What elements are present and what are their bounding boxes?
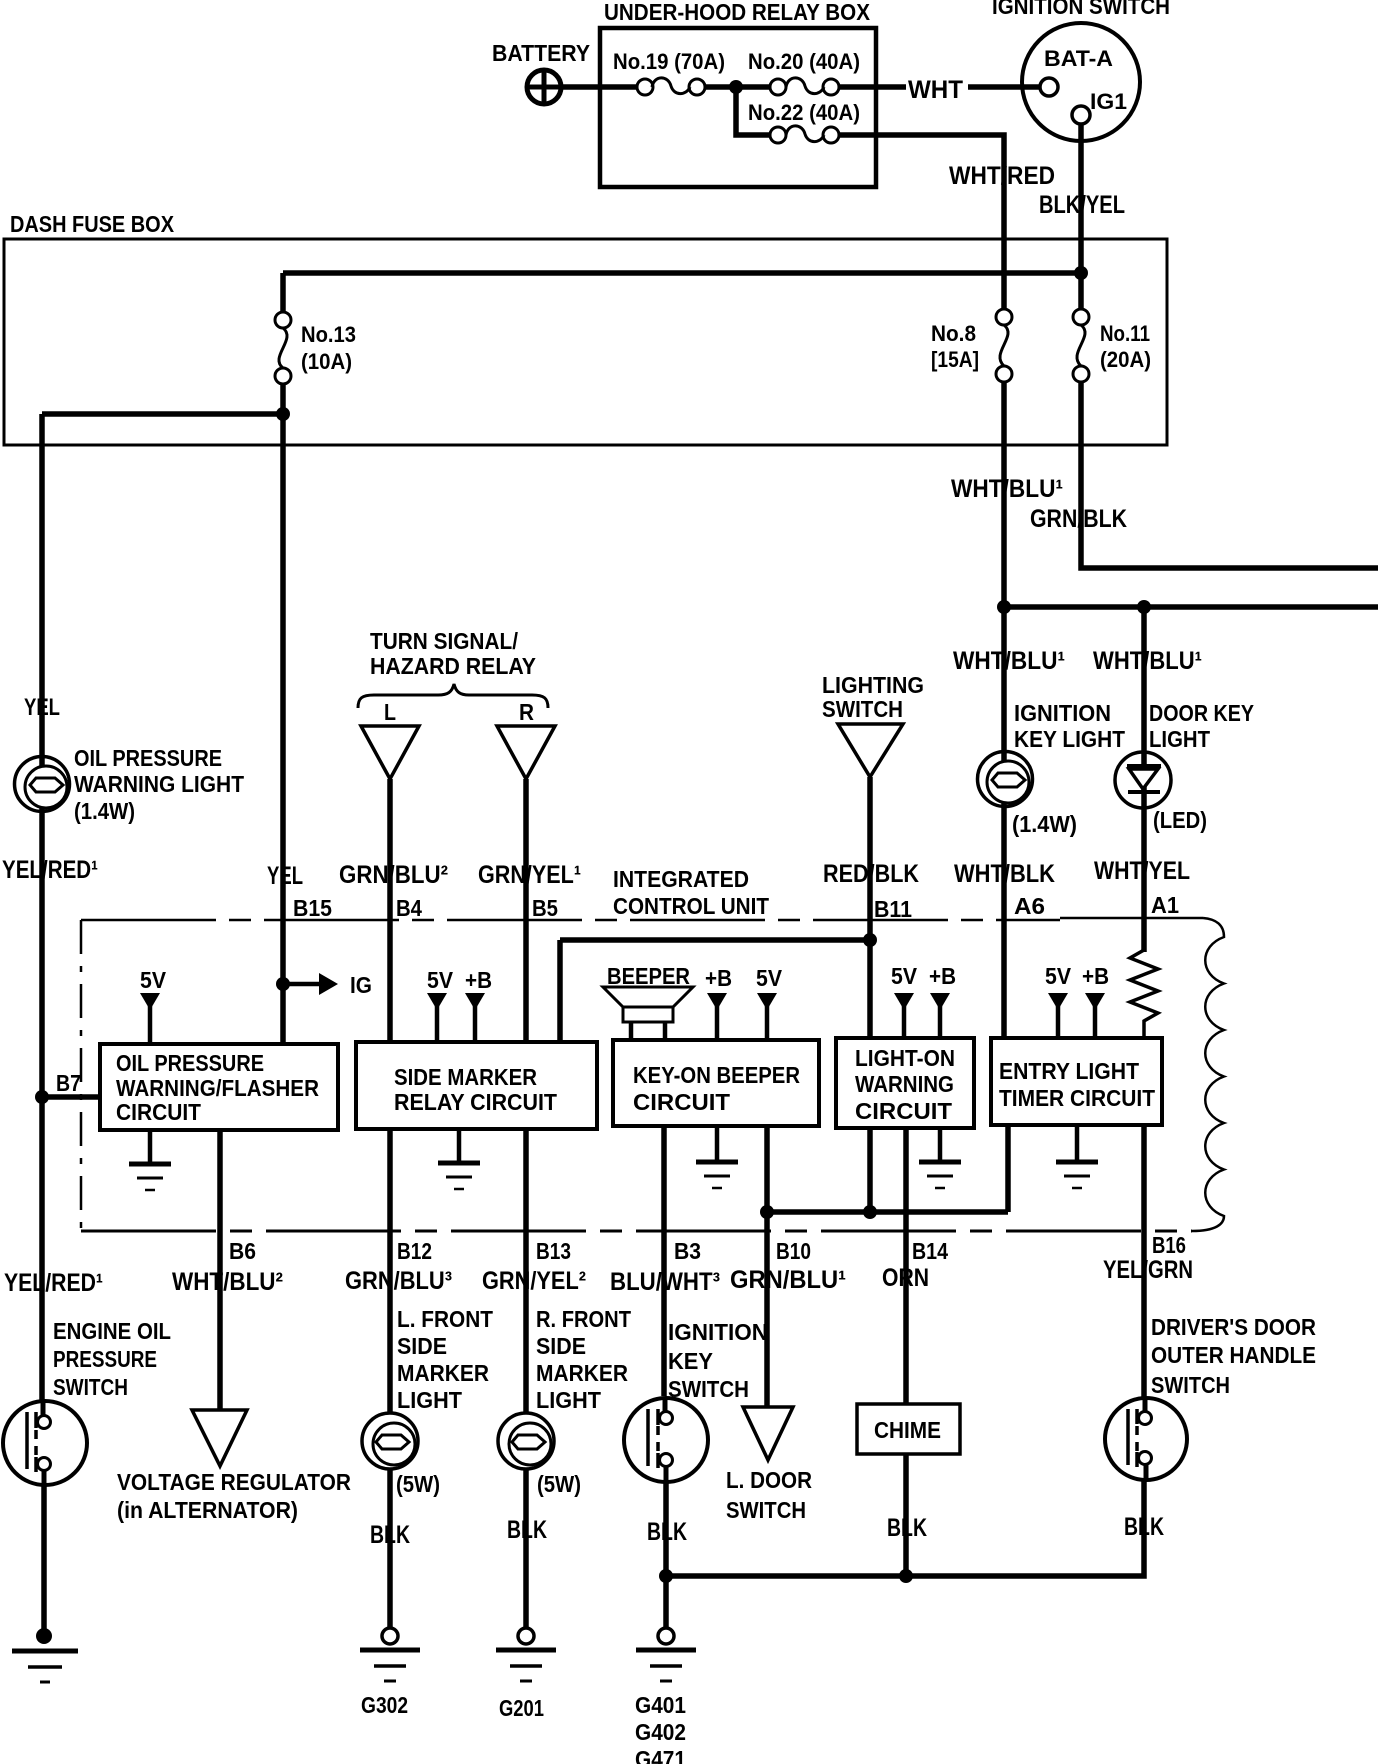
svg-text:CONTROL UNIT: CONTROL UNIT (613, 893, 769, 919)
svg-text:TURN SIGNAL/: TURN SIGNAL/ (370, 628, 519, 654)
svg-text:SIDE: SIDE (536, 1333, 586, 1359)
svg-text:BLK: BLK (1124, 1513, 1164, 1541)
svg-text:PRESSURE: PRESSURE (53, 1346, 157, 1372)
svg-text:YEL: YEL (267, 862, 303, 890)
svg-text:OIL PRESSURE: OIL PRESSURE (74, 745, 222, 771)
svg-text:B13: B13 (536, 1238, 571, 1264)
svg-text:BLK: BLK (370, 1521, 410, 1549)
svg-text:(1.4W): (1.4W) (1012, 811, 1077, 837)
svg-text:B10: B10 (776, 1238, 811, 1264)
svg-text:WHT/BLU¹: WHT/BLU¹ (1093, 647, 1202, 675)
svg-text:5V: 5V (891, 963, 918, 989)
svg-text:B3: B3 (674, 1238, 701, 1264)
svg-text:CIRCUIT: CIRCUIT (855, 1098, 952, 1124)
svg-text:HAZARD RELAY: HAZARD RELAY (370, 653, 536, 679)
svg-text:+B: +B (465, 967, 492, 993)
svg-text:IGNITION: IGNITION (1014, 700, 1111, 726)
svg-text:L. DOOR: L. DOOR (726, 1467, 812, 1493)
svg-text:G401: G401 (635, 1692, 686, 1718)
svg-text:GRN/BLU¹: GRN/BLU¹ (730, 1266, 846, 1294)
svg-text:L: L (384, 699, 396, 725)
svg-text:WARNING/FLASHER: WARNING/FLASHER (116, 1075, 319, 1101)
svg-text:No.22 (40A): No.22 (40A) (748, 100, 860, 125)
svg-text:DOOR KEY: DOOR KEY (1149, 700, 1254, 726)
svg-text:WHT/BLK: WHT/BLK (954, 860, 1055, 888)
svg-text:WHT: WHT (908, 76, 963, 104)
svg-text:WHT/YEL: WHT/YEL (1094, 857, 1190, 885)
svg-text:No.11: No.11 (1100, 321, 1150, 346)
svg-text:5V: 5V (756, 965, 783, 991)
svg-text:BAT-A: BAT-A (1044, 46, 1113, 71)
svg-text:G402: G402 (635, 1719, 686, 1745)
svg-text:A1: A1 (1151, 892, 1179, 918)
svg-text:BATTERY: BATTERY (492, 40, 590, 66)
svg-text:ENGINE OIL: ENGINE OIL (53, 1318, 171, 1344)
svg-text:SWITCH: SWITCH (53, 1374, 128, 1400)
svg-text:5V: 5V (140, 967, 167, 993)
svg-text:B4: B4 (396, 895, 422, 921)
svg-text:(LED): (LED) (1153, 807, 1207, 833)
svg-text:R: R (519, 699, 534, 725)
svg-text:KEY LIGHT: KEY LIGHT (1014, 726, 1125, 752)
svg-text:BLK: BLK (887, 1514, 927, 1542)
svg-text:B6: B6 (229, 1238, 256, 1264)
svg-text:B12: B12 (397, 1238, 432, 1264)
svg-text:VOLTAGE REGULATOR: VOLTAGE REGULATOR (117, 1469, 351, 1495)
svg-text:GRN/YEL²: GRN/YEL² (482, 1267, 586, 1295)
svg-text:CIRCUIT: CIRCUIT (633, 1089, 730, 1115)
svg-text:INTEGRATED: INTEGRATED (613, 866, 749, 892)
svg-text:(in ALTERNATOR): (in ALTERNATOR) (117, 1497, 298, 1523)
svg-text:OIL PRESSURE: OIL PRESSURE (116, 1050, 264, 1076)
svg-text:OUTER HANDLE: OUTER HANDLE (1151, 1342, 1316, 1368)
svg-text:WARNING: WARNING (855, 1071, 954, 1097)
svg-text:WARNING LIGHT: WARNING LIGHT (74, 771, 244, 797)
svg-text:5V: 5V (427, 967, 454, 993)
svg-text:WHT/BLU²: WHT/BLU² (172, 1268, 283, 1296)
svg-text:MARKER: MARKER (397, 1360, 489, 1386)
svg-text:(5W): (5W) (396, 1471, 440, 1497)
svg-text:BEEPER: BEEPER (607, 963, 690, 989)
svg-text:B7: B7 (56, 1070, 81, 1096)
svg-text:LIGHT: LIGHT (397, 1387, 462, 1413)
svg-text:YEL/GRN: YEL/GRN (1103, 1256, 1193, 1284)
svg-text:(1.4W): (1.4W) (74, 798, 135, 824)
svg-text:LIGHT: LIGHT (1149, 726, 1210, 752)
svg-text:(10A): (10A) (301, 349, 352, 374)
svg-text:SWITCH: SWITCH (726, 1497, 806, 1523)
svg-text:+B: +B (705, 965, 732, 991)
svg-text:GRN/YEL¹: GRN/YEL¹ (478, 861, 581, 889)
svg-text:TIMER CIRCUIT: TIMER CIRCUIT (999, 1085, 1155, 1111)
svg-text:G302: G302 (361, 1692, 408, 1718)
svg-text:LIGHT: LIGHT (536, 1387, 601, 1413)
svg-text:BLK: BLK (647, 1518, 687, 1546)
svg-text:IGNITION: IGNITION (668, 1319, 768, 1345)
svg-text:R. FRONT: R. FRONT (536, 1306, 631, 1332)
svg-text:GRN/BLU³: GRN/BLU³ (345, 1267, 452, 1295)
svg-text:(5W): (5W) (537, 1471, 581, 1497)
svg-text:IGNITION SWITCH: IGNITION SWITCH (992, 0, 1170, 19)
svg-text:LIGHTING: LIGHTING (822, 672, 924, 698)
svg-text:G201: G201 (499, 1695, 544, 1721)
svg-text:5V: 5V (1045, 963, 1072, 989)
svg-text:DASH FUSE BOX: DASH FUSE BOX (10, 211, 175, 237)
svg-text:B15: B15 (293, 895, 332, 921)
svg-text:SWITCH: SWITCH (822, 696, 903, 722)
svg-text:YEL/RED¹: YEL/RED¹ (4, 1269, 103, 1297)
svg-text:No.20 (40A): No.20 (40A) (748, 49, 860, 74)
svg-text:YEL/RED¹: YEL/RED¹ (2, 856, 98, 884)
svg-text:SWITCH: SWITCH (1151, 1372, 1230, 1398)
svg-text:ORN: ORN (882, 1264, 929, 1292)
svg-text:RED/BLK: RED/BLK (823, 860, 919, 888)
svg-text:SIDE MARKER: SIDE MARKER (394, 1064, 537, 1090)
svg-text:GRN/BLK: GRN/BLK (1030, 505, 1127, 533)
svg-text:IG1: IG1 (1090, 89, 1127, 114)
svg-text:BLU/WHT³: BLU/WHT³ (610, 1268, 720, 1296)
svg-text:A6: A6 (1014, 893, 1045, 919)
svg-text:KEY-ON BEEPER: KEY-ON BEEPER (633, 1062, 800, 1088)
svg-text:[15A]: [15A] (931, 347, 979, 372)
svg-text:IG: IG (350, 972, 372, 998)
svg-text:YEL: YEL (24, 694, 60, 721)
svg-text:G471: G471 (635, 1746, 686, 1764)
svg-text:+B: +B (1082, 963, 1109, 989)
svg-text:WHT/BLU¹: WHT/BLU¹ (953, 647, 1065, 675)
svg-text:No.19 (70A): No.19 (70A) (613, 49, 725, 74)
svg-text:WHT/RED: WHT/RED (949, 162, 1055, 190)
svg-text:BLK/YEL: BLK/YEL (1039, 191, 1125, 219)
svg-text:GRN/BLU²: GRN/BLU² (339, 861, 448, 889)
svg-text:B14: B14 (912, 1238, 948, 1264)
svg-text:DRIVER'S DOOR: DRIVER'S DOOR (1151, 1314, 1316, 1340)
svg-text:RELAY CIRCUIT: RELAY CIRCUIT (394, 1089, 557, 1115)
svg-text:(20A): (20A) (1100, 347, 1151, 372)
svg-text:CIRCUIT: CIRCUIT (116, 1099, 201, 1125)
svg-text:B11: B11 (874, 896, 912, 922)
svg-text:B16: B16 (1152, 1232, 1186, 1258)
svg-text:ENTRY LIGHT: ENTRY LIGHT (999, 1058, 1139, 1084)
svg-text:CHIME: CHIME (874, 1417, 941, 1443)
svg-text:WHT/BLU¹: WHT/BLU¹ (951, 475, 1063, 503)
svg-text:+B: +B (929, 963, 956, 989)
svg-text:L. FRONT: L. FRONT (397, 1306, 493, 1332)
svg-text:No.13: No.13 (301, 322, 356, 347)
svg-text:B5: B5 (532, 895, 558, 921)
svg-text:SWITCH: SWITCH (668, 1376, 749, 1402)
svg-text:BLK: BLK (507, 1516, 547, 1544)
svg-text:SIDE: SIDE (397, 1333, 447, 1359)
svg-text:LIGHT-ON: LIGHT-ON (855, 1045, 955, 1071)
svg-text:KEY: KEY (668, 1348, 713, 1374)
svg-text:MARKER: MARKER (536, 1360, 628, 1386)
svg-text:No.8: No.8 (931, 321, 976, 346)
svg-text:UNDER-HOOD RELAY BOX: UNDER-HOOD RELAY BOX (604, 0, 871, 25)
